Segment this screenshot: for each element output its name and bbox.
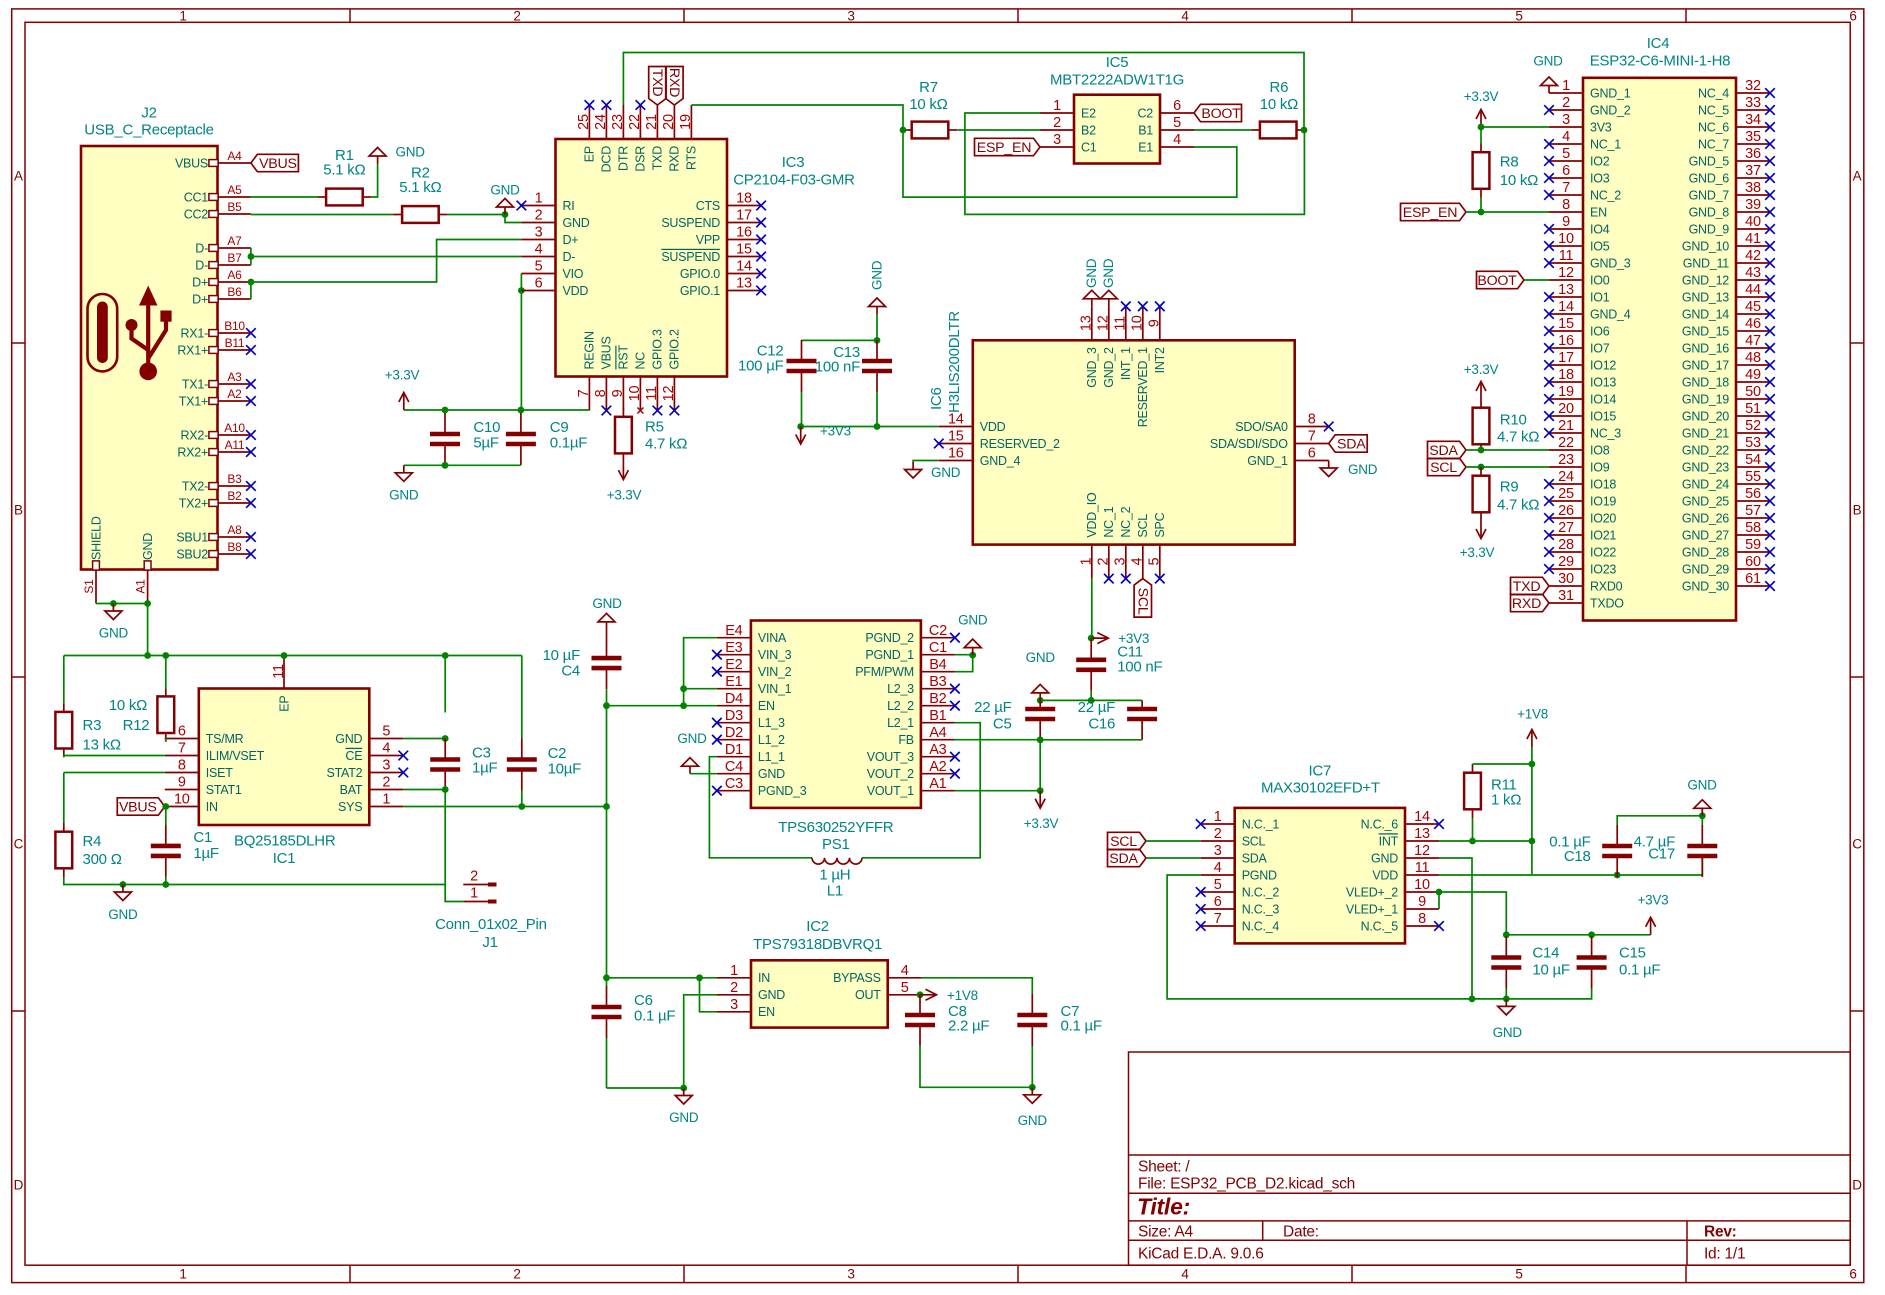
IC4 pin 35 NC_7 [1698,129,1770,151]
svg-text:GND_28: GND_28 [1682,545,1729,559]
wire 1v8 down2 [1531,841,1533,875]
svg-text:NC: NC [634,352,648,370]
no-connect IC6 bottom [1155,574,1165,584]
IC5 pin 2 B2 [1040,115,1096,137]
svg-text:GND: GND [1018,1113,1048,1128]
label SCL at IC4 [1428,458,1467,476]
no-connect J2 A8 [246,532,256,542]
svg-text:A2: A2 [929,759,946,775]
svg-text:E3: E3 [725,640,742,656]
resistor R1 [317,147,371,205]
svg-text:44: 44 [1745,282,1761,298]
IC4 pin 56 GND_25 [1682,486,1770,508]
capacitor C14 [1491,937,1570,989]
resistor R5 [615,408,687,462]
wire L1 right [862,723,980,858]
IC4 pin 13 IO1 [1549,282,1610,304]
label VBUS at IC1 [117,798,165,816]
wire D- bracket [250,248,252,265]
IC3 pin 17 SUSPEND [661,208,761,230]
svg-text:E4: E4 [725,623,742,639]
IC5 pin 4 E1 [1138,132,1194,154]
svg-text:19: 19 [1558,384,1574,400]
svg-text:R12: R12 [123,717,150,734]
wire c10 top seg [444,410,446,414]
IC4 pin 28 IO22 [1549,537,1616,559]
svg-text:FB: FB [898,733,913,747]
no-connect J2 B11 [246,345,256,355]
svg-text:+3.3V: +3.3V [607,488,642,503]
svg-text:C4: C4 [725,759,743,775]
svg-text:VPP: VPP [696,233,720,247]
IC IC4 ESP32-C6-MINI-1-H8 body [1533,35,1736,621]
svg-text:J2: J2 [141,105,156,122]
resistor R2 [393,165,447,223]
svg-text:TX1-: TX1- [182,377,208,391]
junction vout1 [1037,787,1044,794]
IC6 pin 2 NC_1 [1096,506,1117,578]
svg-text:GND: GND [108,907,138,922]
svg-text:Title:: Title: [1137,1194,1190,1220]
svg-text:6: 6 [1562,163,1570,179]
svg-text:23: 23 [1558,452,1574,468]
svg-text:18: 18 [1558,367,1574,383]
svg-text:MAX30102EFD+T: MAX30102EFD+T [1261,780,1380,797]
svg-text:B5: B5 [227,200,242,214]
svg-text:55: 55 [1745,469,1761,485]
no-connect IC6 pin8 [1324,422,1334,432]
svg-text:VDD_IO: VDD_IO [1085,492,1099,538]
svg-text:7: 7 [1562,180,1570,196]
svg-text:B2: B2 [929,691,946,707]
svg-text:54: 54 [1745,452,1761,468]
svg-text:29: 29 [1558,554,1574,570]
svg-text:D4: D4 [725,691,743,707]
IC3 pin 23 DTR [610,105,631,171]
wire gnd to pin2 [505,215,521,223]
ground GND at IC6 pin12 [1100,258,1117,306]
IC4 pin 20 IO15 [1549,401,1616,423]
svg-text:B2: B2 [1081,123,1096,137]
svg-text:DCD: DCD [600,146,614,173]
power +1V8 at OUT [920,988,978,1003]
no-connect IC7 pin14 [1434,819,1444,829]
svg-text:CC1: CC1 [184,190,209,204]
svg-text:GND_13: GND_13 [1682,290,1729,304]
svg-text:26: 26 [1558,503,1574,519]
ground GND at IC3 pin2 [490,183,520,215]
svg-text:CE: CE [345,749,362,763]
no-connect IC6 top [1155,302,1165,312]
svg-text:A7: A7 [227,234,242,248]
svg-text:GND_21: GND_21 [1682,426,1729,440]
IC4 pin 40 GND_9 [1689,214,1770,236]
svg-text:B4: B4 [929,657,946,673]
capacitor C4 [543,637,622,689]
svg-text:R4: R4 [83,833,102,850]
svg-text:IO18: IO18 [1590,477,1616,491]
PS1 pin B1 L2_1 [887,708,955,730]
svg-text:15: 15 [1558,316,1574,332]
wire gnd drop [876,314,878,340]
wire gnd12 loop [1439,858,1472,999]
svg-text:SCL: SCL [1242,834,1266,848]
svg-text:4.7 kΩ: 4.7 kΩ [1497,496,1539,513]
svg-text:14: 14 [948,412,964,428]
svg-text:GND_7: GND_7 [1689,188,1730,202]
IC6 pin 1 VDD_IO [1079,492,1100,579]
svg-text:6: 6 [1849,1267,1856,1282]
IC2 pin 1 IN [717,963,770,985]
svg-text:Date:: Date: [1283,1223,1319,1240]
IC4 pin 45 GND_14 [1682,299,1770,321]
svg-text:4: 4 [1562,129,1570,145]
svg-text:IO7: IO7 [1590,341,1610,355]
svg-text:R7: R7 [919,79,938,96]
no-connect IC3 pin12 [670,406,680,416]
svg-text:A1: A1 [929,776,946,792]
svg-text:BYPASS: BYPASS [833,971,881,985]
wire r11 bot [1472,818,1474,841]
svg-text:NC_5: NC_5 [1698,103,1729,117]
svg-text:GPIO.3: GPIO.3 [651,329,665,369]
svg-text:TPS79318DBVRQ1: TPS79318DBVRQ1 [753,936,882,953]
svg-text:C2: C2 [929,623,947,639]
wire scl ic7 [1146,840,1201,842]
svg-text:A11: A11 [225,438,245,452]
IC3 pin 15 SUSPEND [661,242,761,264]
svg-text:21: 21 [1558,418,1574,434]
svg-text:9: 9 [1147,319,1163,327]
svg-text:D+: D+ [563,233,579,247]
capacitor C1 [151,825,219,877]
svg-text:1: 1 [1562,78,1570,94]
IC1 pin 9 STAT1 [165,775,242,797]
PS1 pin B3 L2_3 [887,674,955,696]
svg-text:C18: C18 [1564,848,1591,865]
no-connect IC3 pin1 RI [517,201,527,211]
svg-text:IO21: IO21 [1590,528,1616,542]
IC4 pin 15 IO6 [1549,316,1610,338]
svg-text:H3LIS200DLTR: H3LIS200DLTR [946,311,963,413]
junction c5 top [1037,697,1044,704]
svg-text:12: 12 [1558,265,1574,281]
IC4 pin 1 GND_1 [1549,78,1631,100]
junction J2 gnd [110,600,117,607]
svg-text:D-: D- [195,258,208,272]
svg-text:RXD: RXD [668,146,682,172]
svg-text:C3: C3 [725,776,743,792]
svg-text:N.C._3: N.C._3 [1242,902,1280,916]
svg-text:14: 14 [1558,299,1574,315]
IC4 pin 34 NC_6 [1698,112,1770,134]
svg-text:BAT: BAT [340,783,363,797]
wire FB right [955,739,1040,741]
junction gnd c17 [1699,812,1706,819]
svg-text:VINA: VINA [758,631,787,645]
svg-text:10: 10 [627,386,643,402]
IC3 pin 18 CTS [696,191,761,213]
svg-text:1µF: 1µF [193,845,218,862]
junction D- [248,253,255,260]
wire R12 to pin6 [165,739,166,742]
IC6 pin 8 SDO/SA0 [1235,412,1328,434]
IC7 pin 10 VLED+_2 [1346,877,1439,899]
IC4 pin 12 IO0 [1549,265,1610,287]
svg-text:7: 7 [576,389,592,397]
no-connect IC3 top [636,100,646,110]
IC4 pin 50 GND_19 [1682,384,1770,406]
svg-text:GND: GND [592,596,622,611]
IC3 pin 1 RI [521,191,574,213]
IC4 pin 55 GND_24 [1682,469,1770,491]
svg-text:A2: A2 [227,387,242,401]
ground GND at R1 [369,145,425,164]
wire en loop [700,978,718,1012]
wire CC2 to R2 [251,214,394,216]
svg-text:GND_17: GND_17 [1682,358,1729,372]
IC6 pin 9 INT2 [1147,306,1168,373]
svg-text:2: 2 [382,775,390,791]
PS1 pin B2 L2_2 [887,691,955,713]
svg-text:RX1+: RX1+ [177,343,208,357]
svg-text:3: 3 [847,1267,854,1282]
junction c5 bot [1037,736,1044,743]
junction c13bot [874,423,881,430]
svg-text:31: 31 [1558,588,1574,604]
svg-text:E1: E1 [725,674,742,690]
svg-text:5: 5 [1173,115,1181,131]
svg-text:VDD: VDD [1372,868,1398,882]
svg-text:RXD0: RXD0 [1590,579,1623,593]
svg-text:SDA: SDA [1429,443,1458,459]
label BOOT at IC5 [1194,104,1242,122]
IC4 pin 8 EN [1549,197,1607,219]
svg-text:IN: IN [206,800,218,814]
svg-text:N.C._2: N.C._2 [1242,885,1280,899]
svg-text:+3.3V: +3.3V [1024,816,1059,831]
svg-text:C2: C2 [1138,106,1154,120]
svg-text:SUSPEND: SUSPEND [661,216,720,230]
IC4 pin 24 IO18 [1549,469,1616,491]
no-connect IC6 top [1121,302,1131,312]
svg-text:40: 40 [1745,214,1761,230]
IC3 pin 14 GPIO.0 [680,259,761,281]
svg-text:34: 34 [1745,112,1761,128]
svg-text:IO0: IO0 [1590,273,1610,287]
svg-text:49: 49 [1745,367,1761,383]
svg-text:8: 8 [1562,197,1570,213]
svg-text:IO8: IO8 [1590,443,1610,457]
svg-text:13: 13 [1079,315,1095,331]
svg-text:1: 1 [470,886,478,902]
wire vdd right [1439,856,1702,875]
resistor R6 [1251,79,1305,138]
ground GND above C13 [869,260,886,314]
J2 pin B7 D- [195,251,251,272]
IC4 pin 44 GND_13 [1682,282,1770,304]
IC4 pin 36 GND_5 [1689,146,1770,168]
wire gnd c4pin [690,773,717,775]
svg-text:D: D [1852,1178,1862,1193]
IC4 pin 3 3V3 [1549,112,1612,134]
svg-text:GND_20: GND_20 [1682,409,1729,423]
svg-text:51: 51 [1745,401,1761,417]
svg-text:5: 5 [1214,877,1222,893]
svg-text:GND: GND [669,1110,699,1125]
svg-text:GND: GND [99,626,129,641]
svg-text:C17: C17 [1648,846,1675,863]
IC4 pin 51 GND_20 [1682,401,1770,423]
svg-text:+3.3V: +3.3V [1460,545,1495,560]
svg-text:2: 2 [513,8,520,23]
wire E2 loop [965,113,1305,214]
wire sda to IO8 [1466,449,1549,451]
IC4 pin 57 GND_26 [1682,503,1770,525]
no-connect IC7 left [1196,921,1206,931]
IC4 pin 22 IO8 [1549,435,1610,457]
IC7 pin 11 VDD [1372,860,1439,882]
svg-text:1: 1 [1214,809,1222,825]
junction ic2 gnd [680,1085,687,1092]
svg-text:47: 47 [1745,333,1761,349]
IC7 pin 4 PGND [1201,860,1277,882]
svg-text:24: 24 [1558,469,1574,485]
svg-text:C1: C1 [929,640,947,656]
svg-text:VBUS: VBUS [175,156,208,170]
IC4 pin 27 IO21 [1549,520,1616,542]
label ESP_EN at IC4 [1401,203,1467,221]
svg-text:12: 12 [661,386,677,402]
svg-text:D: D [14,1178,24,1193]
svg-text:C: C [14,837,24,852]
IC3 pin 19 RTS [678,105,699,170]
svg-text:GND: GND [563,216,590,230]
ground GND below IC1 [108,885,138,923]
svg-text:3: 3 [382,758,390,774]
nc pin marker IC3 pin10 [637,408,643,414]
svg-text:11: 11 [1113,316,1129,331]
svg-text:10: 10 [174,792,190,808]
svg-text:USB_C_Receptacle: USB_C_Receptacle [84,122,213,139]
label TXD at IC4 [1511,577,1550,595]
resistor R8 [1473,144,1539,198]
svg-text:B6: B6 [227,285,242,299]
J2 pin S1 SHIELD [82,516,103,603]
svg-text:SDA: SDA [1109,851,1138,867]
IC7 pin 5 N.C._2 [1201,877,1280,899]
junction c14 top [1503,931,1510,938]
no-connect IC3 top [585,100,595,110]
svg-text:+1V8: +1V8 [1517,707,1548,722]
svg-text:16: 16 [948,446,964,462]
IC IC1 BQ25185DLHR body [199,689,369,868]
svg-text:5: 5 [382,724,390,740]
svg-text:VIN_1: VIN_1 [758,682,792,696]
IC7 pin 14 N.C._6 [1361,809,1439,831]
transistor IC5 MBT2222ADW1T1G body [1050,54,1184,164]
svg-text:VIO: VIO [563,267,584,281]
ground GND at PS1 C4pin [677,731,707,774]
no-connect PS1 right [950,752,960,762]
svg-text:8: 8 [593,389,609,397]
J2 pin B5 CC2 [184,200,251,221]
IC1 pin 3 STAT2 [327,758,404,780]
svg-text:J1: J1 [482,934,497,951]
label TXD at IC3 [649,67,666,106]
svg-text:10: 10 [1558,231,1574,247]
IC4 pin 30 RXD0 [1549,571,1623,593]
IC1 pin 1 SYS [338,792,403,814]
wire R8 to espen [1480,198,1482,213]
IC4 pin 48 GND_17 [1682,350,1770,372]
capacitor C9 [506,413,587,465]
svg-text:38: 38 [1745,180,1761,196]
svg-text:19: 19 [678,114,694,130]
wire VIO-VDD tie [520,274,522,291]
J2 USB icon [88,286,172,381]
junction c12bot [797,423,804,430]
IC4 pin 23 IO9 [1549,452,1610,474]
power +3.3V below R5 [607,462,642,502]
wire scl to IO9 [1466,466,1549,468]
svg-text:5µF: 5µF [473,434,498,451]
junction vled [1436,889,1443,896]
svg-text:E1: E1 [1138,140,1153,154]
PS1 pin A1 VOUT_1 [867,776,955,798]
ground GND above PS1 right [958,613,988,656]
svg-text:SDA/SDI/SDO: SDA/SDI/SDO [1210,437,1288,451]
svg-text:NC_6: NC_6 [1698,120,1729,134]
svg-text:VLED+_1: VLED+_1 [1346,902,1398,916]
no-connect IC7 left [1196,887,1206,897]
svg-text:12: 12 [1096,315,1112,331]
svg-text:SDO/SA0: SDO/SA0 [1235,420,1288,434]
svg-text:OUT: OUT [855,988,881,1002]
svg-text:14: 14 [1414,809,1430,825]
wire DTR long [623,53,1304,131]
junction D+ [248,279,255,286]
svg-text:RXD: RXD [666,68,682,97]
IC4 pin 2 GND_2 [1549,95,1631,117]
svg-text:IO13: IO13 [1590,375,1616,389]
svg-text:TXDO: TXDO [1590,596,1624,610]
svg-text:L2_2: L2_2 [887,699,914,713]
svg-text:+3V3: +3V3 [820,424,851,439]
junction scl r9 [1478,464,1485,471]
svg-text:B2: B2 [227,489,242,503]
junction rail gnd12 [1469,996,1476,1003]
svg-text:5: 5 [535,259,543,275]
svg-text:VOUT_1: VOUT_1 [867,784,914,798]
svg-text:C16: C16 [1088,715,1115,732]
svg-text:3: 3 [1113,558,1129,566]
svg-text:D-: D- [563,250,576,264]
PS1 pin D4 EN [717,691,775,713]
svg-text:10: 10 [1414,877,1430,893]
no-connect PS1 left [712,650,722,660]
wire RTS to R7 [691,105,903,130]
IC4 pin 58 GND_27 [1682,520,1770,542]
svg-text:EN: EN [758,699,775,713]
wire E1 loop [903,130,1237,197]
wire c15 top seg [1591,935,1593,937]
svg-text:BQ25185DLHR: BQ25185DLHR [234,833,336,850]
svg-text:VOUT_3: VOUT_3 [867,750,914,764]
IC2 pin 3 EN [717,997,775,1019]
svg-text:GND: GND [396,145,426,160]
svg-text:R9: R9 [1500,478,1519,495]
